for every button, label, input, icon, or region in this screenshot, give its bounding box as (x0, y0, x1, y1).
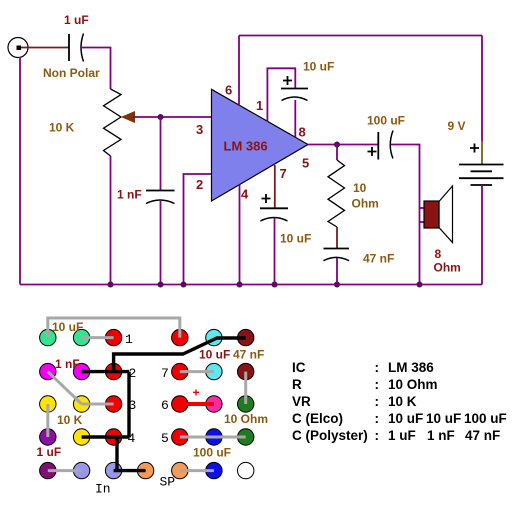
svg-text:10 uF: 10 uF (388, 411, 423, 426)
svg-text:10 uF: 10 uF (426, 411, 461, 426)
hole row4 yellow B (73, 429, 89, 445)
jumper gray 1nF diagonal (48, 372, 82, 404)
svg-text:5: 5 (302, 156, 309, 171)
node ground junction C2 (158, 282, 164, 288)
node ground junction pin2 (181, 282, 187, 288)
hole row2 red D (172, 363, 188, 379)
wire C2 bottom lead (160, 201, 162, 285)
hole row1 darkred F (238, 329, 254, 345)
svg-text:R: R (292, 377, 302, 392)
hole row2 cyan E (206, 363, 222, 379)
jumper gray row5 left (48, 469, 82, 472)
wire ground rail bottom (20, 284, 482, 286)
jumper black row2 (82, 370, 129, 373)
hole row3 pink E (206, 396, 222, 412)
speaker LS1 cone (439, 186, 453, 243)
hole row4 red D (172, 429, 188, 445)
wire output pin 5 (308, 144, 378, 146)
capacitor C5 100uF (378, 131, 393, 160)
svg-text:10 uF: 10 uF (52, 320, 83, 334)
svg-text:10 K: 10 K (388, 394, 417, 409)
svg-text:Non Polar: Non Polar (43, 66, 100, 80)
jumper gray row5 right (180, 469, 214, 472)
node ground junction speaker (417, 282, 423, 288)
svg-text:C (Elco): C (Elco) (292, 411, 343, 426)
wire C1 to pot top (82, 48, 111, 90)
svg-text:6: 6 (225, 83, 232, 98)
battery plus sign (470, 144, 479, 153)
wire left rail (19, 57, 21, 285)
hole row5 orange D (137, 462, 153, 478)
wire battery top lead (481, 36, 483, 142)
node output junction (334, 142, 340, 148)
jumper gray row2 10uF (180, 370, 214, 373)
svg-text:3: 3 (129, 398, 137, 413)
svg-text:SP: SP (160, 475, 176, 490)
jumper gray 10uF top (48, 318, 180, 338)
battery BT1 9V (459, 165, 504, 186)
svg-text:100 uF: 100 uF (464, 411, 507, 426)
svg-text:5: 5 (161, 431, 169, 446)
hole row4 darkgreen F (238, 429, 254, 445)
svg-text:IC: IC (292, 360, 306, 375)
wire pin 6 to V+ rail (238, 36, 240, 107)
svg-text:8: 8 (435, 247, 442, 261)
node ground junction pin4 (237, 282, 243, 288)
wire wiper to pin 3 (133, 116, 212, 118)
wire pin 2 (184, 174, 212, 285)
svg-text:1: 1 (125, 332, 133, 347)
svg-text:47 nF: 47 nF (465, 428, 500, 443)
hole row4 red C (105, 429, 121, 445)
hole row5 darkpurple A (40, 462, 56, 478)
hole row2 magenta A (40, 363, 56, 379)
hole row1 red D (172, 329, 188, 345)
hole row5 orange E (172, 462, 188, 478)
jumper black row5 to SP (114, 469, 146, 472)
wire C5 to speaker (391, 145, 420, 285)
hole row4 purple A (40, 429, 56, 445)
hole row3 red D (172, 396, 188, 412)
svg-text:10 Ohm: 10 Ohm (388, 377, 438, 392)
wire speaker stubs (420, 208, 425, 222)
hole row5 periwinkle C (105, 462, 121, 478)
jumper gray row1 (82, 336, 114, 339)
wire pot bottom to ground rail (110, 156, 112, 285)
svg-text:9 V: 9 V (448, 119, 466, 133)
svg-text:100 uF: 100 uF (367, 114, 405, 128)
wire R1 to C6 (336, 227, 338, 249)
input jack J1 (8, 38, 28, 58)
svg-text::: : (375, 360, 380, 375)
svg-text:In: In (95, 482, 111, 497)
hole row1 green A (40, 329, 56, 345)
plus sign C4 (262, 194, 271, 203)
svg-text:1: 1 (256, 98, 263, 113)
svg-text:4: 4 (241, 187, 249, 202)
svg-text:10 K: 10 K (49, 121, 75, 135)
jumper black row4 (82, 435, 129, 438)
svg-text:3: 3 (196, 122, 203, 137)
plus sign C3 (283, 76, 292, 85)
plus sign C5 (368, 147, 377, 156)
resistor R1 10 Ohm (328, 160, 345, 227)
svg-text:LM 386: LM 386 (388, 360, 434, 375)
svg-text:2: 2 (129, 366, 137, 381)
jumper black 4 to row5 (115, 437, 118, 471)
svg-text:Ohm: Ohm (352, 197, 379, 211)
hole row3 red C (105, 396, 121, 412)
capacitor C2 1nF (146, 191, 175, 204)
wire C6 to ground (336, 258, 338, 285)
potentiometer VR1 10K zigzag (104, 89, 122, 156)
jumper black row2 to row1 diagonal (114, 338, 246, 372)
jumper gray row3 left (82, 403, 114, 406)
hole row5 blue F (206, 462, 222, 478)
svg-text:1 nF: 1 nF (117, 188, 142, 202)
capacitor C3 10uF pin1-pin8 (281, 89, 308, 101)
svg-text:Ohm: Ohm (434, 261, 461, 275)
hole row5 periwinkle B (73, 462, 89, 478)
wire top V+ rail (239, 35, 482, 37)
svg-text:47 nF: 47 nF (363, 252, 394, 266)
wire C2 top lead (160, 117, 162, 191)
svg-text:8: 8 (299, 125, 306, 140)
svg-text:2: 2 (196, 177, 203, 192)
svg-text:7: 7 (161, 366, 169, 381)
svg-text:1 uF: 1 uF (388, 428, 416, 443)
svg-text::: : (375, 394, 380, 409)
svg-text:10: 10 (353, 181, 367, 195)
wire battery top lead lower part (481, 141, 483, 165)
wire C4 to ground (274, 218, 276, 285)
capacitor C1 1uF non-polar (69, 34, 84, 62)
svg-text:1 nF: 1 nF (55, 357, 80, 371)
wire junction to R1 (336, 145, 338, 161)
svg-text:+: + (193, 386, 200, 400)
svg-text:10 uF: 10 uF (303, 60, 334, 74)
op-amp U1 LM386 (212, 89, 309, 201)
speaker LS1 magnet (424, 201, 439, 228)
hole row3 yellow A (40, 396, 56, 412)
svg-text:10 K: 10 K (57, 413, 83, 427)
wire pin 1 to C3 (267, 68, 295, 121)
svg-text:C (Polyster): C (Polyster) (292, 428, 368, 443)
node junction wiper/C2 (158, 114, 164, 120)
svg-text:100 uF: 100 uF (193, 446, 231, 460)
wire C3 to pin 8 (294, 100, 296, 137)
node ground junction C6 (334, 282, 340, 288)
svg-text:47 nF: 47 nF (233, 348, 264, 362)
svg-text::: : (375, 428, 380, 443)
node ground junction C4 (272, 282, 278, 288)
svg-text:4: 4 (128, 431, 136, 446)
svg-text:VR: VR (292, 394, 311, 409)
wire pin 4 to ground (239, 185, 241, 285)
hole row5 white G (238, 462, 254, 478)
capacitor C4 10uF bypass (260, 208, 288, 221)
wire battery bottom to ground rail (481, 185, 483, 285)
hole row3 darkgreen F (238, 396, 254, 412)
pot wiper arrow (122, 112, 135, 122)
jumper gray row4 100uF (180, 436, 246, 439)
hole row1 cyan E (206, 329, 222, 345)
hole row2 red C (105, 363, 121, 379)
svg-text:7: 7 (280, 166, 287, 181)
hole row1 red C (105, 329, 121, 345)
node ground junction pot (108, 282, 114, 288)
svg-text:1 uF: 1 uF (64, 13, 89, 27)
hole row4 blue E (206, 429, 222, 445)
svg-text::: : (375, 377, 380, 392)
hole row2 magenta B (73, 363, 89, 379)
svg-text:6: 6 (161, 398, 169, 413)
svg-text::: : (375, 411, 380, 426)
jumper red row3 (180, 402, 214, 406)
svg-text:10 uF: 10 uF (280, 232, 311, 246)
svg-text:LM 386: LM 386 (224, 139, 268, 154)
jumper gray 10K vertical (46, 404, 49, 437)
jumper black vertical 2-4 (127, 372, 130, 437)
wire jack to C1 (21, 47, 69, 49)
wire pin 7 to C4 (274, 165, 276, 208)
hole row3 yellow B (73, 396, 89, 412)
svg-text:10 Ohm: 10 Ohm (224, 412, 268, 426)
svg-text:10 uF: 10 uF (199, 348, 230, 362)
hole row1 green B (73, 329, 89, 345)
hole row2 darkred F (238, 363, 254, 379)
jumper gray 47nF vertical (244, 372, 247, 404)
capacitor C6 47nF (324, 249, 350, 261)
svg-text:1 uF: 1 uF (37, 445, 62, 459)
svg-text:1 nF: 1 nF (427, 428, 455, 443)
